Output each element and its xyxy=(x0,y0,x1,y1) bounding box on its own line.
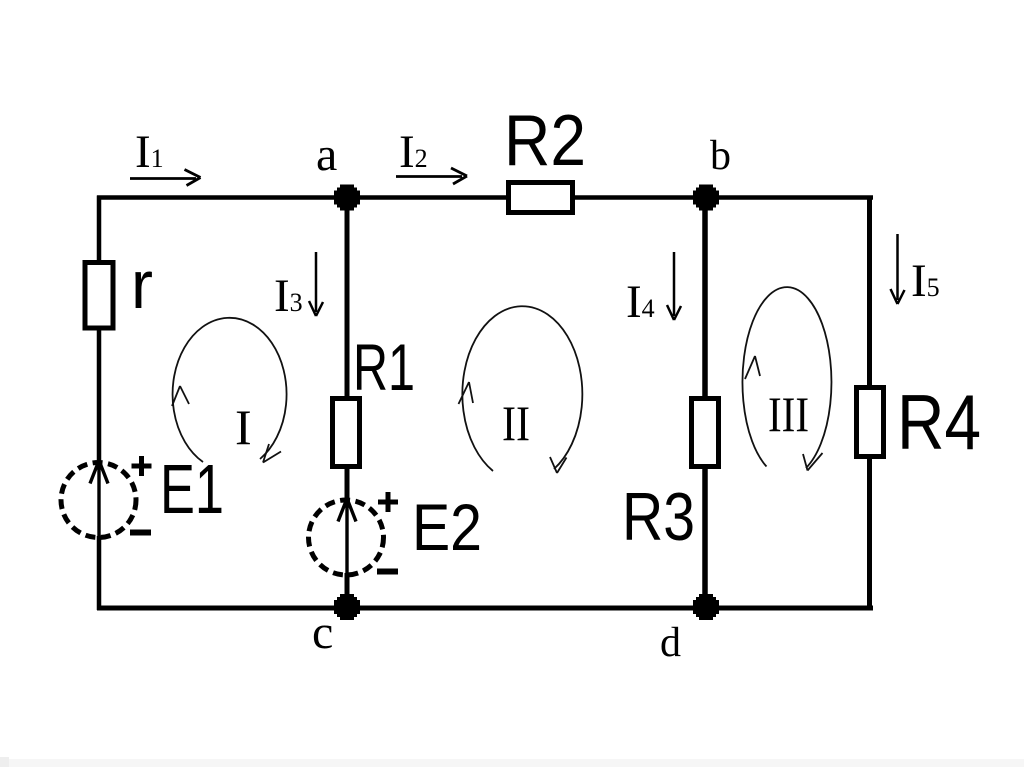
E1 plus sign xyxy=(132,456,152,476)
wire right branch xyxy=(867,196,872,611)
current arrow I5 xyxy=(891,234,905,304)
resistor R4 xyxy=(857,388,884,457)
svg-text:R1: R1 xyxy=(353,330,415,404)
mesh loop I arc xyxy=(173,318,287,462)
svg-text:I: I xyxy=(235,399,252,455)
svg-text:a: a xyxy=(316,128,337,181)
svg-text:r: r xyxy=(131,247,153,323)
E2 plus sign xyxy=(378,492,398,512)
E2 minus sign xyxy=(377,569,398,575)
E1 minus sign xyxy=(130,530,151,536)
svg-text:R4: R4 xyxy=(897,378,981,466)
svg-text:E1: E1 xyxy=(160,450,224,528)
resistor R2 xyxy=(509,183,573,213)
node a xyxy=(334,185,360,211)
mesh loop III left arrowhead xyxy=(745,356,760,379)
mesh loop III arc xyxy=(742,287,831,468)
svg-text:R2: R2 xyxy=(504,101,586,181)
wire bottom c-d rail xyxy=(97,606,873,611)
wire middle branch a-c xyxy=(345,197,350,502)
mesh loop II end arrowhead xyxy=(550,457,567,473)
svg-text:III: III xyxy=(768,386,809,442)
current arrow I4 xyxy=(667,252,681,320)
svg-text:c: c xyxy=(312,606,333,659)
mesh loop I end arrowhead xyxy=(263,444,281,463)
wire left branch xyxy=(97,196,102,465)
node d xyxy=(693,594,719,620)
mesh loop II left arrowhead xyxy=(459,382,474,404)
mesh loop II arc xyxy=(462,306,582,471)
current arrow I2 xyxy=(396,168,467,184)
resistor R3 xyxy=(692,399,719,467)
resistor R1 xyxy=(333,399,360,467)
wire top a-b rail xyxy=(97,195,873,200)
current arrow I3 xyxy=(309,252,323,316)
source E1 circle xyxy=(61,463,136,538)
svg-text:E2: E2 xyxy=(412,490,482,564)
source E1 arrow xyxy=(90,461,108,541)
source E2 circle xyxy=(309,500,384,575)
bottom edge strip xyxy=(0,759,1024,767)
svg-text:b: b xyxy=(710,133,731,179)
node c xyxy=(334,594,360,620)
svg-text:d: d xyxy=(660,620,681,666)
svg-text:R3: R3 xyxy=(622,479,695,555)
current arrow I1 xyxy=(130,170,201,186)
mesh loop I left arrowhead xyxy=(172,386,189,406)
node b xyxy=(693,185,719,211)
wire branch b-d xyxy=(702,197,708,608)
source E2 arrow xyxy=(338,499,356,577)
resistor r xyxy=(85,263,113,329)
mesh loop III end arrowhead xyxy=(803,453,823,471)
svg-text:II: II xyxy=(502,395,530,451)
